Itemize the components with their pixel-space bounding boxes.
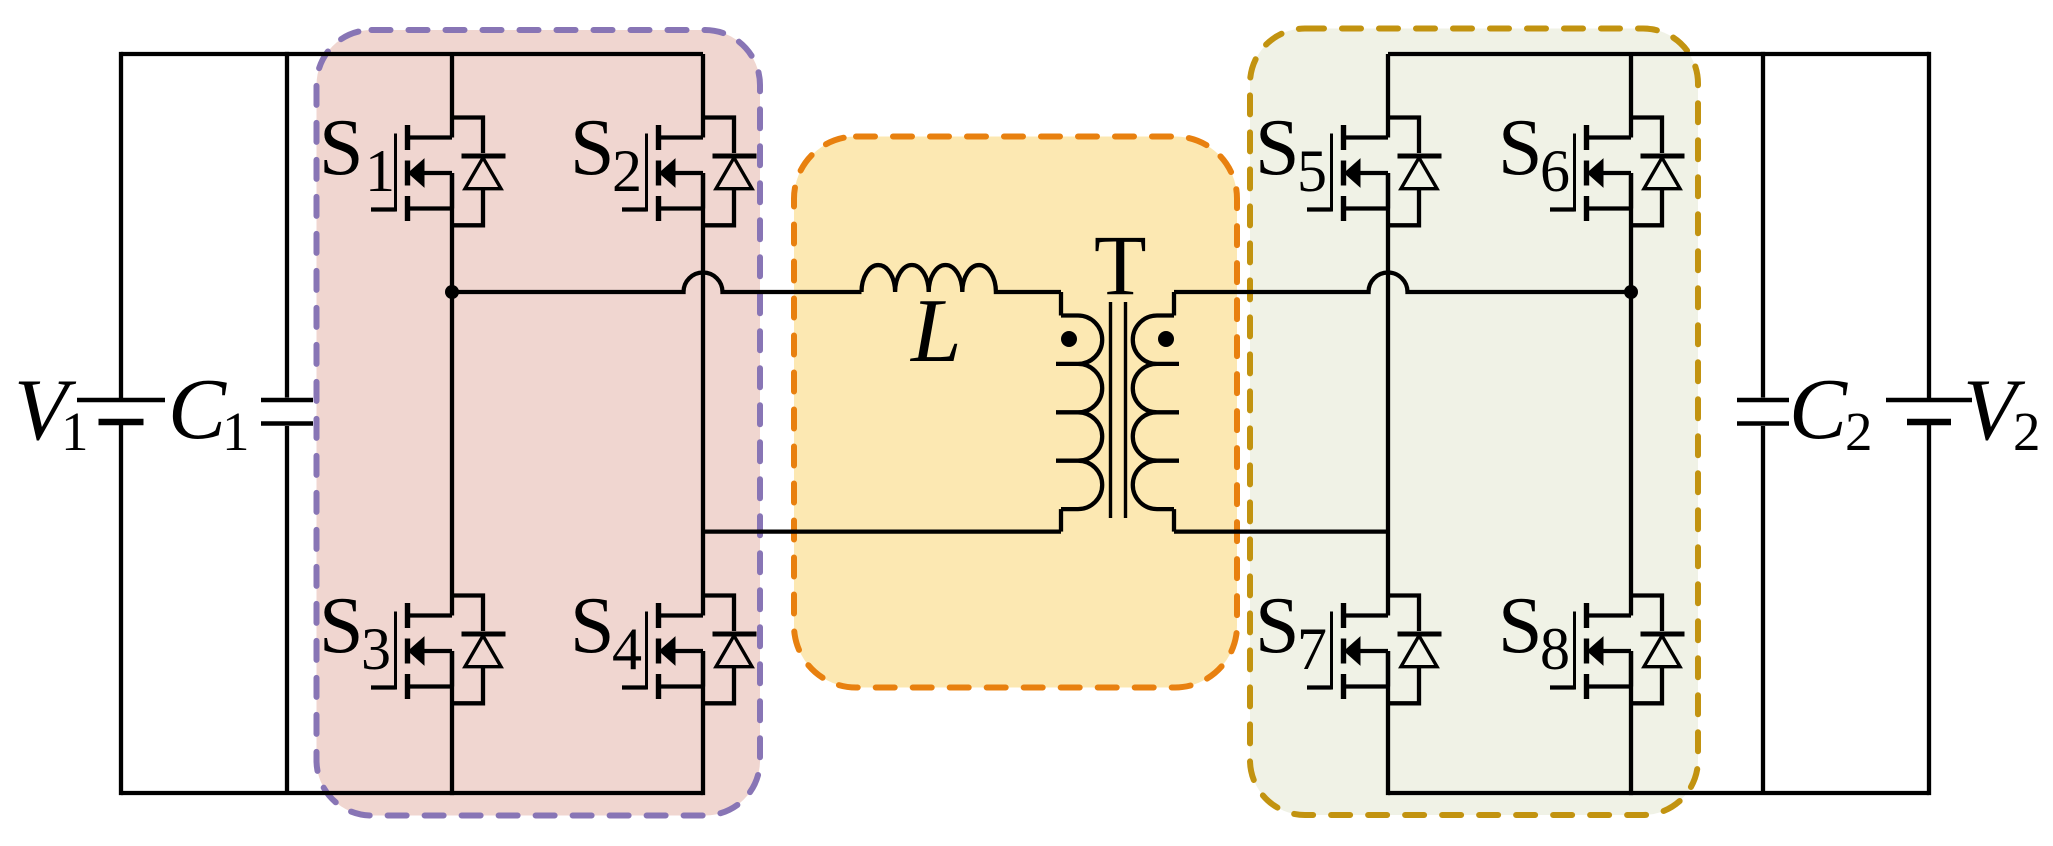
transistor S8: gate lead	[1550, 685, 1575, 689]
diode of S3: triangle	[465, 636, 501, 667]
transistor S7: source-to-bar line	[1344, 684, 1389, 688]
diode of S2: top branch wire	[703, 118, 734, 154]
svg-text:C: C	[168, 360, 227, 457]
transistor S1: source-to-bar line	[408, 206, 453, 210]
transformer T: core lines	[1111, 302, 1126, 518]
transistor S3: gate lead	[371, 685, 396, 689]
transistor S4: body arrowhead	[660, 637, 676, 665]
diode of S5: triangle	[1401, 158, 1437, 189]
node B junction dot	[1624, 285, 1638, 299]
transistor S2: body arrow line	[675, 171, 704, 175]
transistor S5: drain-to-top-bar line	[1344, 135, 1389, 139]
svg-text:L: L	[909, 280, 962, 381]
transistor S1: gate line	[394, 134, 397, 212]
svg-text:2: 2	[2013, 401, 2041, 462]
transistor S5: gate line	[1330, 134, 1333, 212]
tank shaded box (yellow, orange dashed)	[794, 137, 1237, 688]
transformer T: primary polarity dot	[1061, 331, 1077, 347]
transistor S4: source bar	[656, 674, 661, 699]
diode of S4: bottom branch wire	[703, 667, 734, 704]
transistor S1: body arrow line	[424, 171, 453, 175]
transistor S3: gate line	[394, 612, 397, 690]
transistor S6: source-to-bar line	[1587, 206, 1632, 210]
transistor S4: gate line	[645, 612, 648, 690]
transistor S3: source-to-bar line	[408, 684, 453, 688]
capacitor C1: top plate	[261, 398, 313, 403]
wire: S4 source vertical	[701, 651, 705, 795]
transistor S2: source-to-bar line	[659, 206, 704, 210]
transistor S1: drain bar	[405, 125, 410, 150]
diode of S4: top branch wire	[703, 596, 734, 632]
transistor S5: body arrow line	[1360, 171, 1389, 175]
diode of S8: cathode bar	[1641, 632, 1685, 637]
transistor S8: drain bar	[1584, 603, 1589, 628]
transistor S4: body bar (middle)	[656, 639, 661, 664]
wire: top rail right	[1388, 52, 1929, 56]
transistor S7: body bar (middle)	[1341, 639, 1346, 664]
transistor S6: body bar (middle)	[1584, 161, 1589, 186]
diode of S1: triangle	[465, 158, 501, 189]
transformer T: secondary winding arcs	[1133, 316, 1157, 510]
capacitor C2: bottom wire	[1761, 426, 1765, 793]
transformer T: primary winding arcs	[1078, 316, 1102, 510]
svg-text:C: C	[1789, 360, 1848, 457]
transistor S6: source bar	[1584, 196, 1589, 221]
transistor S4: drain-to-top-bar line	[659, 613, 704, 617]
transistor S7: gate line	[1330, 612, 1333, 690]
transistor S7: body arrowhead	[1345, 637, 1361, 665]
transistor S5: source bar	[1341, 196, 1346, 221]
diode of S8: bottom branch wire	[1631, 667, 1662, 704]
transistor S5: body arrowhead	[1345, 159, 1361, 187]
wire: bottom rail right	[1388, 791, 1929, 795]
transistor S4: source vertical (arrow node to source line)	[701, 651, 705, 687]
diode of S6: cathode bar	[1641, 154, 1685, 159]
transistor S2: drain bar	[656, 125, 661, 150]
transistor S6: drain bar	[1584, 125, 1589, 150]
diode of S6: bottom branch wire	[1631, 189, 1662, 226]
source V2: long plate	[1886, 398, 1972, 403]
capacitor C1: bottom wire	[285, 426, 289, 793]
transistor S5: drain bar	[1341, 125, 1346, 150]
transistor S7: drain-to-top-bar line	[1344, 613, 1389, 617]
transistor S8: body arrow line	[1603, 649, 1632, 653]
bridge-2 shaded box (green, olive dashed)	[1250, 29, 1698, 816]
source V1: long plate	[77, 398, 165, 403]
diode of S1: top branch wire	[452, 118, 483, 154]
diode of S6: top branch wire	[1631, 118, 1662, 154]
transistor S4: gate lead	[622, 685, 647, 689]
transistor S1: source vertical (arrow node to source line)	[450, 173, 454, 209]
svg-text:S: S	[319, 104, 364, 192]
diode of S1: cathode bar	[462, 154, 506, 159]
transistor S6: gate lead	[1550, 207, 1575, 211]
wire: bridge-1 lower output to transformer primary bottom	[703, 529, 1061, 533]
transistor S8: body arrowhead	[1588, 637, 1604, 665]
transistor S2: source bar	[656, 196, 661, 221]
transistor S6: source vertical (arrow node to source line)	[1629, 173, 1633, 209]
wire: S5 drain vertical	[1386, 54, 1390, 138]
transistor S8: source-to-bar line	[1587, 684, 1632, 688]
source V2: bottom wire	[1927, 424, 1931, 795]
wire: S1 source / S3 drain vertical (through node A)	[450, 173, 454, 616]
transformer T: primary top entry	[1059, 292, 1063, 316]
transistor S7: drain bar	[1341, 603, 1346, 628]
transistor S3: body arrowhead	[409, 637, 425, 665]
transistor S8: source bar	[1584, 674, 1589, 699]
transformer T: secondary polarity dot	[1158, 331, 1174, 347]
bridge-1 shaded box (pink, purple dashed)	[317, 30, 761, 816]
diode of S6: triangle	[1644, 158, 1680, 189]
transistor S3: drain bar	[405, 603, 410, 628]
source V2: top wire	[1927, 52, 1931, 398]
transformer T: secondary bottom exit	[1172, 509, 1176, 531]
transistor S8: drain-to-top-bar line	[1587, 613, 1632, 617]
svg-text:1: 1	[222, 401, 250, 462]
diode of S7: triangle	[1401, 636, 1437, 667]
transistor S7: source vertical (arrow node to source line)	[1386, 651, 1390, 687]
source V1: top wire	[119, 52, 123, 398]
transformer T: secondary top entry	[1172, 292, 1176, 316]
svg-text:S: S	[1498, 104, 1543, 192]
diode of S5: bottom branch wire	[1388, 189, 1419, 226]
transistor S1: drain-to-top-bar line	[408, 135, 453, 139]
transistor S1: body bar (middle)	[405, 161, 410, 186]
transformer T: primary winding ticks	[1056, 316, 1078, 510]
transistor S4: source-to-bar line	[659, 684, 704, 688]
diode of S4: triangle	[716, 636, 752, 667]
transistor S2: body arrowhead	[660, 159, 676, 187]
svg-text:S: S	[1255, 582, 1300, 670]
svg-text:8: 8	[1540, 616, 1570, 682]
diode of S8: top branch wire	[1631, 596, 1662, 632]
wire: transformer secondary bottom to S5/S7 leg	[1174, 529, 1388, 533]
svg-text:S: S	[570, 104, 615, 192]
svg-text:S: S	[1498, 582, 1543, 670]
wire: S3 source vertical	[450, 651, 454, 795]
transistor S4: drain bar	[656, 603, 661, 628]
svg-text:3: 3	[361, 616, 391, 682]
transformer T: primary bottom exit	[1059, 509, 1063, 531]
transistor S3: source bar	[405, 674, 410, 699]
transistor S1: source bar	[405, 196, 410, 221]
svg-text:4: 4	[612, 616, 642, 682]
wire: top rail left	[121, 52, 703, 56]
capacitor C2: top wire	[1761, 52, 1765, 398]
transistor S1: body arrowhead	[409, 159, 425, 187]
transistor S5: source vertical (arrow node to source line)	[1386, 173, 1390, 209]
transistor S7: source bar	[1341, 674, 1346, 699]
transistor S6: gate line	[1573, 134, 1576, 212]
svg-text:S: S	[319, 582, 364, 670]
diode of S5: top branch wire	[1388, 118, 1419, 154]
source V1: short plate	[99, 419, 144, 426]
diode of S7: cathode bar	[1398, 632, 1442, 637]
node A junction dot	[445, 285, 459, 299]
transistor S5: gate lead	[1307, 207, 1332, 211]
source V1: bottom wire	[119, 424, 123, 795]
wire: bottom rail left	[121, 791, 703, 795]
svg-text:1: 1	[365, 138, 395, 204]
capacitor C1: top wire	[285, 52, 289, 398]
svg-text:S: S	[1255, 104, 1300, 192]
svg-text:6: 6	[1540, 138, 1570, 204]
transistor S2: drain-to-top-bar line	[659, 135, 704, 139]
diode of S3: bottom branch wire	[452, 667, 483, 704]
transistor S4: body arrow line	[675, 649, 704, 653]
transistor S8: gate line	[1573, 612, 1576, 690]
wire: S6 drain vertical	[1629, 54, 1633, 138]
wire: transformer secondary top to node B (hop over S5/S7 leg)	[1174, 273, 1631, 293]
transistor S7: gate lead	[1307, 685, 1332, 689]
wire: S5 source / S7 drain vertical	[1386, 173, 1390, 616]
transistor S7: body arrow line	[1360, 649, 1389, 653]
diode of S2: triangle	[716, 158, 752, 189]
transistor S8: body bar (middle)	[1584, 639, 1589, 664]
transistor S6: body arrowhead	[1588, 159, 1604, 187]
transistor S3: source vertical (arrow node to source line)	[450, 651, 454, 687]
wire: node A to tank (with hop over S2/S4 leg) and inductor L	[452, 273, 862, 293]
svg-text:1: 1	[61, 401, 89, 462]
transistor S6: body arrow line	[1603, 171, 1632, 175]
svg-text:5: 5	[1297, 138, 1327, 204]
svg-text:2: 2	[612, 138, 642, 204]
svg-text:S: S	[570, 582, 615, 670]
capacitor C1: bottom plate	[261, 421, 313, 426]
wire: S6 source / S8 drain vertical (through node B)	[1629, 173, 1633, 616]
diode of S1: bottom branch wire	[452, 189, 483, 226]
capacitor C2: top plate	[1737, 398, 1789, 403]
capacitor C2: bottom plate	[1737, 421, 1789, 426]
transistor S2: source vertical (arrow node to source line)	[701, 173, 705, 209]
wire: S1 drain vertical	[450, 54, 454, 138]
transistor S2: body bar (middle)	[656, 161, 661, 186]
diode of S2: cathode bar	[713, 154, 757, 159]
diode of S3: cathode bar	[462, 632, 506, 637]
transistor S2: gate line	[645, 134, 648, 212]
transistor S3: drain-to-top-bar line	[408, 613, 453, 617]
diode of S7: top branch wire	[1388, 596, 1419, 632]
transistor S1: gate lead	[371, 207, 396, 211]
diode of S2: bottom branch wire	[703, 189, 734, 226]
transistor S8: source vertical (arrow node to source line)	[1629, 651, 1633, 687]
transistor S2: gate lead	[622, 207, 647, 211]
svg-text:T: T	[1094, 217, 1147, 313]
diode of S5: cathode bar	[1398, 154, 1442, 159]
transistor S6: drain-to-top-bar line	[1587, 135, 1632, 139]
inductor L (4 humps)	[862, 265, 1062, 292]
wire: S2 drain vertical	[701, 54, 705, 138]
transistor S3: body arrow line	[424, 649, 453, 653]
wire: S8 source vertical	[1629, 651, 1633, 795]
svg-text:2: 2	[1845, 401, 1873, 462]
transistor S3: body bar (middle)	[405, 639, 410, 664]
diode of S4: cathode bar	[713, 632, 757, 637]
transistor S5: source-to-bar line	[1344, 206, 1389, 210]
diode of S3: top branch wire	[452, 596, 483, 632]
wire: S2 source / S4 drain vertical	[701, 173, 705, 616]
transformer T: secondary winding ticks	[1157, 316, 1179, 510]
source V2: short plate	[1907, 419, 1951, 426]
svg-text:7: 7	[1297, 616, 1327, 682]
wire: S7 source vertical	[1386, 651, 1390, 795]
transistor S5: body bar (middle)	[1341, 161, 1346, 186]
diode of S8: triangle	[1644, 636, 1680, 667]
diode of S7: bottom branch wire	[1388, 667, 1419, 704]
